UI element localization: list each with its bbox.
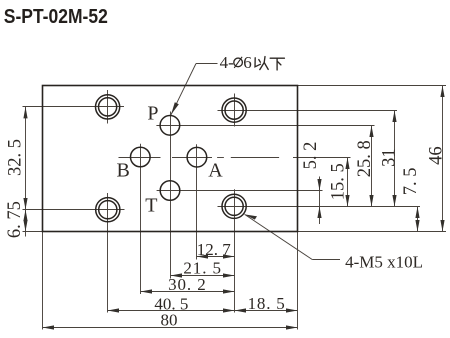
- svg-text:46: 46: [427, 146, 447, 165]
- svg-text:18. 5: 18. 5: [248, 294, 286, 313]
- svg-text:P: P: [147, 103, 158, 125]
- svg-text:32. 5: 32. 5: [6, 139, 26, 176]
- svg-text:S-PT-02M-52: S-PT-02M-52: [4, 5, 108, 27]
- svg-text:4-: 4-: [220, 53, 235, 72]
- svg-text:A: A: [208, 159, 223, 181]
- svg-text:15. 5: 15. 5: [328, 163, 348, 200]
- svg-text:30. 2: 30. 2: [168, 275, 207, 294]
- svg-text:31: 31: [380, 148, 400, 167]
- svg-text:6: 6: [243, 53, 252, 72]
- svg-text:25. 8: 25. 8: [355, 140, 375, 177]
- svg-text:T: T: [145, 194, 157, 216]
- svg-text:12. 7: 12. 7: [197, 240, 232, 259]
- svg-text:80: 80: [161, 311, 178, 330]
- svg-text:6. 75: 6. 75: [5, 201, 25, 238]
- svg-text:5. 2: 5. 2: [301, 142, 321, 170]
- svg-text:4-M5 x10L: 4-M5 x10L: [345, 253, 423, 272]
- svg-text:7. 5: 7. 5: [401, 168, 421, 196]
- svg-text:B: B: [117, 159, 130, 181]
